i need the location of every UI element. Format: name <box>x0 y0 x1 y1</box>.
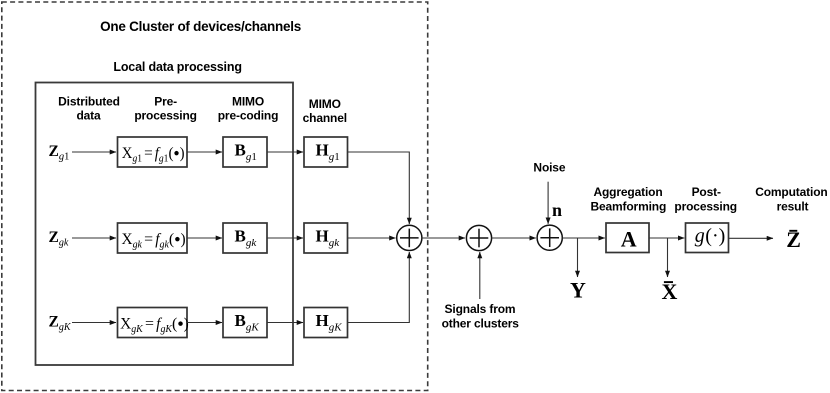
svg-text:processing: processing <box>674 200 737 214</box>
wire adder3 to block A <box>562 237 605 239</box>
wire block A to block g <box>649 237 684 239</box>
wire B_g1 to H_g1 <box>267 151 303 153</box>
svg-text:channel: channel <box>303 111 347 125</box>
svg-text:Distributed: Distributed <box>58 94 120 108</box>
wire X_g1 to B_g1 <box>187 151 222 153</box>
svg-text:Post-: Post- <box>692 185 721 199</box>
block B_g1 <box>223 137 267 167</box>
wire branch down to Y <box>577 238 579 277</box>
svg-text:MIMO: MIMO <box>232 94 264 108</box>
adder 3 (noise sum) <box>537 225 562 250</box>
adder 1 (cluster sum) <box>397 225 422 250</box>
wire branch down to Xbar <box>667 238 669 277</box>
block H_gk <box>304 223 348 253</box>
svg-text:data: data <box>76 108 101 122</box>
block H_gK <box>304 308 348 338</box>
svg-text:Beamforming: Beamforming <box>590 200 666 214</box>
wire block g to Zbar <box>729 237 773 239</box>
wire noise into adder3 <box>547 182 549 224</box>
svg-text:Noise: Noise <box>533 161 565 175</box>
wire B_gk to H_gk <box>267 237 303 239</box>
svg-text:MIMO: MIMO <box>309 97 341 111</box>
svg-text:(·): (·) <box>705 225 725 247</box>
wire H_g1 to adder (right then down) <box>348 152 410 224</box>
wire adder2 to adder3 <box>492 237 536 239</box>
wire H_gk to adder 1 <box>348 237 396 239</box>
local data processing box <box>36 83 294 366</box>
svg-text:Z: Z <box>786 227 801 252</box>
wire X_gK to B_gK <box>187 322 222 324</box>
wire z_gk to X block <box>72 237 116 239</box>
svg-text:processing: processing <box>134 108 197 122</box>
node Xbar <box>664 281 673 283</box>
block B_gK <box>223 308 267 338</box>
wire H_gK to adder (right then up) <box>348 252 410 323</box>
svg-text:Aggregation: Aggregation <box>593 185 662 199</box>
svg-text:A: A <box>621 227 637 252</box>
block A (aggregation beamforming) <box>606 223 649 253</box>
svg-text:g: g <box>695 225 705 247</box>
cluster dashed box <box>2 2 428 391</box>
svg-text:Signals from: Signals from <box>445 302 516 316</box>
svg-text:X: X <box>662 279 678 304</box>
svg-text:Local data processing: Local data processing <box>113 60 241 74</box>
svg-text:other clusters: other clusters <box>442 317 520 331</box>
svg-text:result: result <box>777 199 809 213</box>
block X_g1 = f_g1(.) <box>118 137 188 167</box>
block H_g1 <box>304 137 348 167</box>
wire z_g1 to X block <box>72 151 116 153</box>
block X_gk = f_gk(.) <box>118 223 188 253</box>
block B_gk <box>223 223 267 253</box>
svg-text:Y: Y <box>570 277 586 302</box>
wire X_gk to B_gk <box>187 237 222 239</box>
svg-text:Pre-: Pre- <box>154 94 177 108</box>
block g (post-processing) <box>686 223 729 253</box>
svg-text:Computation: Computation <box>755 185 827 199</box>
node Zbar (computation result) <box>789 230 797 232</box>
block X_gK = f_gK(.) <box>118 308 188 338</box>
svg-text:One Cluster of devices/channel: One Cluster of devices/channels <box>100 19 301 34</box>
svg-text:n: n <box>552 200 562 220</box>
wire signals-from-other-clusters into adder2 <box>479 252 481 299</box>
wire B_gK to H_gK <box>267 322 303 324</box>
wire z_gK to X block <box>72 322 116 324</box>
svg-text:pre-coding: pre-coding <box>218 108 279 122</box>
adder 2 (other clusters sum) <box>466 225 491 250</box>
wire adder1 to adder2 <box>422 237 465 239</box>
